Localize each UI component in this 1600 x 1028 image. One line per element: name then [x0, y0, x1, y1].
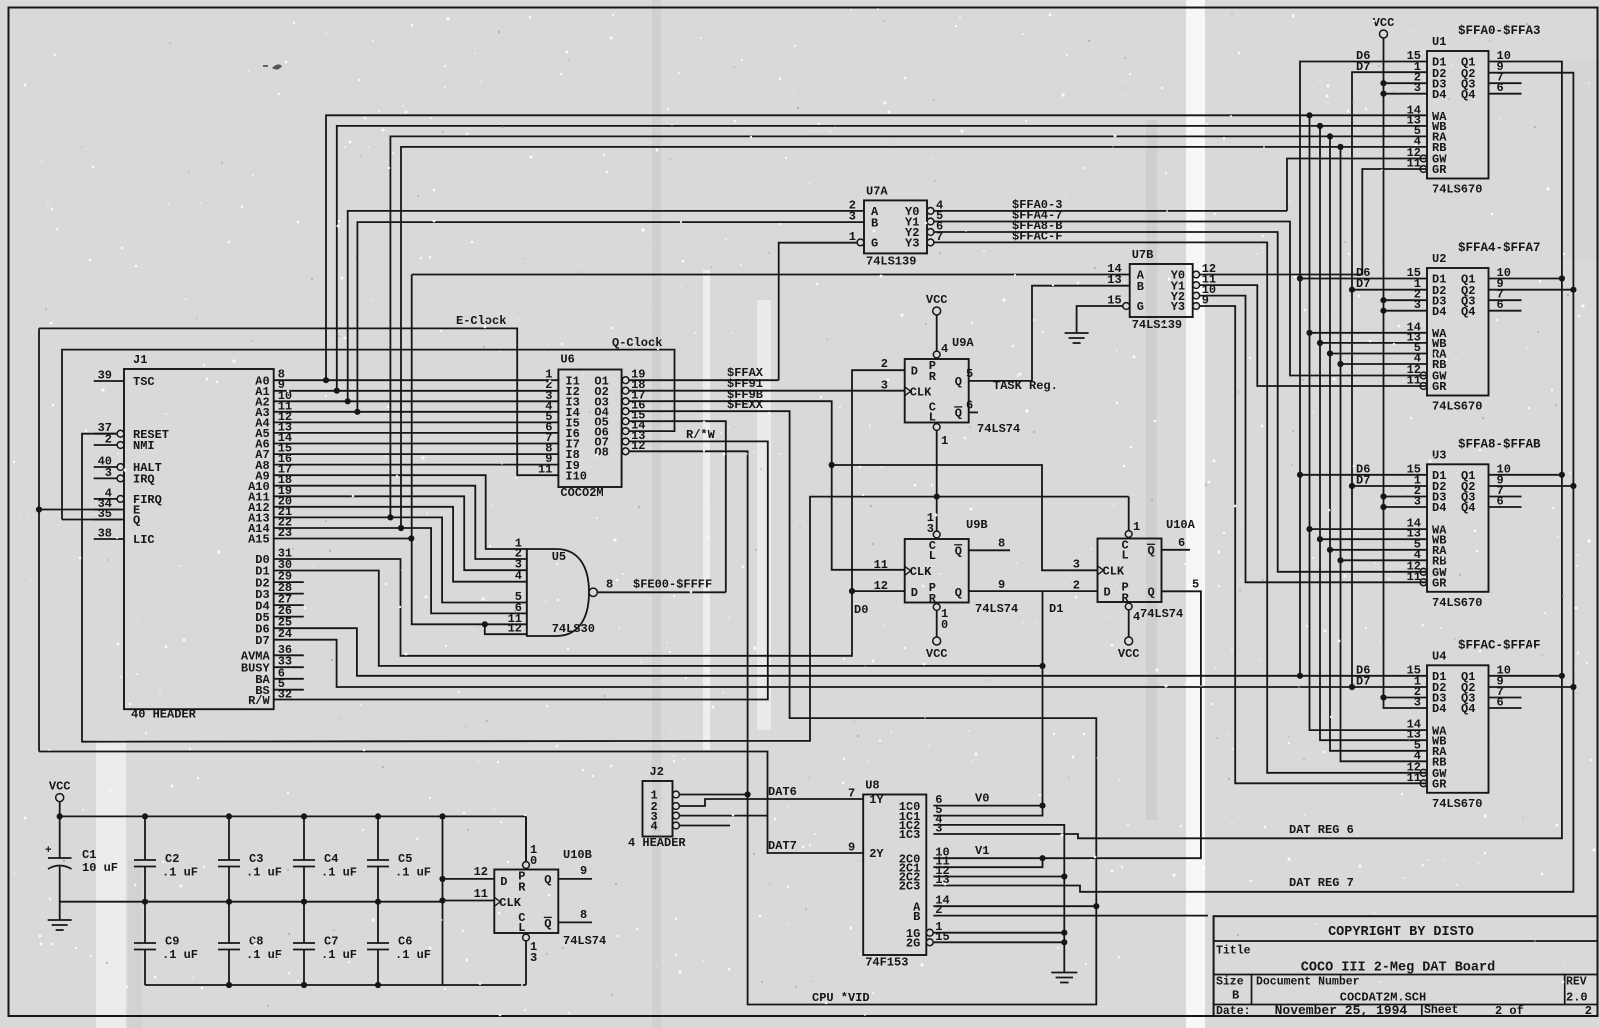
svg-text:D: D	[911, 586, 918, 600]
svg-text:U2: U2	[1432, 252, 1446, 266]
svg-text:3: 3	[1414, 696, 1421, 710]
svg-text:COPYRIGHT BY DISTO: COPYRIGHT BY DISTO	[1328, 925, 1474, 940]
svg-text:35: 35	[98, 507, 112, 521]
svg-text:$FE00-$FFFF: $FE00-$FFFF	[633, 578, 712, 592]
svg-text:DAT REG 6: DAT REG 6	[1289, 823, 1354, 837]
svg-text:.1 uF: .1 uF	[162, 866, 198, 880]
svg-text:L: L	[929, 549, 936, 563]
svg-text:11: 11	[874, 558, 888, 572]
svg-text:November 25, 1994: November 25, 1994	[1275, 1003, 1408, 1018]
svg-text:Q: Q	[955, 545, 962, 559]
svg-text:3: 3	[1414, 495, 1421, 509]
svg-text:U5: U5	[552, 550, 566, 564]
svg-text:COCO III 2-Meg DAT Board: COCO III 2-Meg DAT Board	[1301, 961, 1495, 976]
svg-text:D7: D7	[255, 634, 269, 648]
svg-text:6: 6	[1497, 298, 1504, 312]
svg-text:V1: V1	[975, 844, 989, 858]
svg-text:VCC: VCC	[926, 647, 948, 661]
svg-text:LIC: LIC	[133, 533, 155, 547]
svg-text:VCC: VCC	[1118, 647, 1140, 661]
svg-text:74LS74: 74LS74	[975, 602, 1018, 616]
svg-text:C8: C8	[249, 935, 263, 949]
svg-text:CLK: CLK	[910, 565, 932, 579]
svg-text:Q4: Q4	[1461, 501, 1475, 515]
svg-text:Document Number: Document Number	[1256, 976, 1360, 989]
svg-text:B: B	[1232, 989, 1239, 1003]
svg-text:6: 6	[1178, 536, 1185, 550]
svg-text:40 HEADER: 40 HEADER	[131, 708, 197, 722]
svg-text:GR: GR	[1432, 380, 1447, 394]
svg-text:D7: D7	[1356, 277, 1370, 291]
svg-text:2: 2	[105, 433, 112, 447]
svg-text:3: 3	[1073, 557, 1080, 571]
svg-text:DAT6: DAT6	[768, 785, 797, 799]
svg-text:U7A: U7A	[866, 184, 888, 198]
svg-text:.1 uF: .1 uF	[246, 948, 282, 962]
svg-text:U9B: U9B	[966, 518, 988, 532]
svg-text:74LS139: 74LS139	[866, 254, 916, 268]
svg-text:4: 4	[515, 569, 522, 583]
svg-text:74LS670: 74LS670	[1432, 400, 1482, 414]
svg-text:L: L	[518, 921, 525, 935]
svg-text:15: 15	[935, 930, 949, 944]
svg-text:Q: Q	[955, 586, 962, 600]
svg-text:CLK: CLK	[1103, 565, 1125, 579]
svg-text:I10: I10	[565, 469, 587, 483]
svg-text:L: L	[1122, 549, 1129, 563]
svg-text:74LS74: 74LS74	[977, 422, 1020, 436]
svg-text:39: 39	[98, 369, 112, 383]
svg-text:$FFA4-$FFA7: $FFA4-$FFA7	[1458, 241, 1541, 255]
svg-text:Q: Q	[1148, 586, 1155, 600]
svg-text:D0: D0	[854, 603, 868, 617]
svg-text:J2: J2	[650, 765, 664, 779]
svg-text:23: 23	[278, 526, 292, 540]
svg-text:32: 32	[278, 688, 292, 702]
svg-text:7: 7	[848, 787, 855, 801]
svg-text:3: 3	[927, 522, 934, 536]
svg-text:9: 9	[1202, 294, 1209, 308]
svg-text:Q: Q	[544, 873, 551, 887]
svg-text:6: 6	[1497, 696, 1504, 710]
svg-text:E-Clock: E-Clock	[456, 314, 506, 328]
svg-text:5: 5	[1192, 577, 1199, 591]
svg-text:Y3: Y3	[905, 237, 919, 251]
svg-text:C5: C5	[398, 852, 412, 866]
svg-text:U6: U6	[560, 353, 574, 367]
svg-text:Q: Q	[133, 514, 140, 528]
svg-text:1Y: 1Y	[869, 793, 884, 807]
svg-text:$FFA0-$FFA3: $FFA0-$FFA3	[1458, 24, 1541, 38]
svg-text:13: 13	[1107, 273, 1121, 287]
svg-text:U10B: U10B	[563, 848, 592, 862]
svg-text:D4: D4	[1432, 88, 1446, 102]
svg-text:B: B	[913, 910, 920, 924]
svg-text:3: 3	[105, 466, 112, 480]
svg-text:2: 2	[1585, 1004, 1592, 1018]
svg-text:6: 6	[1497, 495, 1504, 509]
svg-text:D4: D4	[1432, 305, 1446, 319]
svg-text:3: 3	[935, 822, 942, 836]
svg-text:74LS74: 74LS74	[563, 934, 606, 948]
svg-text:.1 uF: .1 uF	[162, 948, 198, 962]
svg-text:11: 11	[1407, 570, 1421, 584]
svg-text:D7: D7	[1356, 675, 1370, 689]
svg-text:Date:: Date:	[1216, 1005, 1251, 1018]
svg-text:10 uF: 10 uF	[82, 861, 118, 875]
svg-text:12: 12	[508, 622, 522, 636]
svg-text:Q: Q	[955, 407, 962, 421]
svg-text:9: 9	[998, 578, 1005, 592]
svg-text:D7: D7	[1356, 60, 1370, 74]
svg-text:13: 13	[935, 873, 949, 887]
svg-text:D1: D1	[1049, 602, 1063, 616]
svg-text:5: 5	[966, 367, 973, 381]
svg-text:74LS30: 74LS30	[552, 622, 595, 636]
svg-text:.1 uF: .1 uF	[321, 866, 357, 880]
svg-text:Sheet: Sheet	[1424, 1004, 1459, 1017]
svg-text:Y3: Y3	[1171, 300, 1185, 314]
svg-text:GR: GR	[1432, 577, 1447, 591]
svg-text:$FFAC-F: $FFAC-F	[1012, 229, 1062, 243]
svg-text:Q: Q	[1148, 544, 1155, 558]
svg-text:TASK Reg.: TASK Reg.	[993, 379, 1058, 393]
svg-text:GR: GR	[1432, 163, 1447, 177]
svg-text:R: R	[929, 370, 937, 384]
svg-text:0: 0	[530, 854, 537, 868]
svg-text:8: 8	[606, 578, 613, 592]
svg-text:R/*W: R/*W	[686, 428, 716, 442]
svg-text:Q: Q	[544, 917, 551, 931]
svg-text:U4: U4	[1432, 649, 1446, 663]
svg-text:74LS74: 74LS74	[1140, 607, 1183, 621]
svg-text:Q4: Q4	[1461, 88, 1475, 102]
svg-text:.1 uF: .1 uF	[395, 948, 431, 962]
svg-text:C1: C1	[82, 848, 96, 862]
svg-text:R: R	[518, 881, 526, 895]
svg-text:D4: D4	[1432, 702, 1446, 716]
svg-text:.1 uF: .1 uF	[321, 948, 357, 962]
svg-text:12: 12	[474, 865, 488, 879]
svg-text:C6: C6	[398, 935, 412, 949]
svg-text:Q-Clock: Q-Clock	[612, 336, 662, 350]
svg-text:4: 4	[941, 342, 948, 356]
svg-text:6: 6	[966, 398, 973, 412]
svg-text:B: B	[871, 216, 878, 230]
svg-text:VCC: VCC	[49, 780, 71, 794]
svg-text:C4: C4	[324, 852, 338, 866]
svg-text:2C3: 2C3	[899, 880, 921, 894]
svg-text:2 of: 2 of	[1495, 1004, 1524, 1018]
svg-text:2: 2	[881, 357, 888, 371]
svg-text:R/W: R/W	[248, 694, 270, 708]
svg-text:4: 4	[651, 820, 658, 834]
svg-text:2Y: 2Y	[869, 847, 884, 861]
svg-text:2G: 2G	[906, 937, 920, 951]
svg-text:8: 8	[998, 536, 1005, 550]
svg-text:Q4: Q4	[1461, 305, 1475, 319]
svg-text:D: D	[911, 364, 918, 378]
svg-text:1: 1	[1133, 520, 1140, 534]
svg-text:C3: C3	[249, 852, 263, 866]
svg-text:9: 9	[580, 864, 587, 878]
svg-text:1: 1	[941, 434, 948, 448]
svg-text:11: 11	[1407, 771, 1421, 785]
svg-text:+: +	[45, 845, 52, 857]
svg-text:D7: D7	[1356, 474, 1370, 488]
svg-text:12: 12	[874, 579, 888, 593]
svg-text:6: 6	[1497, 81, 1504, 95]
svg-text:V0: V0	[975, 792, 989, 806]
svg-text:U10A: U10A	[1166, 518, 1196, 532]
svg-text:1C3: 1C3	[899, 828, 921, 842]
svg-text:8: 8	[580, 908, 587, 922]
svg-text:TSC: TSC	[133, 375, 155, 389]
svg-text:VCC: VCC	[926, 293, 948, 307]
svg-text:4: 4	[1133, 610, 1140, 624]
svg-text:CLK: CLK	[910, 386, 932, 400]
svg-text:REV: REV	[1566, 976, 1587, 989]
svg-text:R: R	[1122, 591, 1130, 605]
svg-text:11: 11	[1407, 157, 1421, 171]
svg-text:2.0: 2.0	[1566, 991, 1588, 1005]
svg-text:3: 3	[1414, 81, 1421, 95]
svg-text:Size: Size	[1216, 976, 1244, 989]
svg-text:CPU *VID: CPU *VID	[812, 991, 870, 1005]
svg-text:74F153: 74F153	[865, 956, 908, 970]
svg-text:.1 uF: .1 uF	[395, 866, 431, 880]
svg-text:11: 11	[538, 463, 552, 477]
svg-text:DAT REG 7: DAT REG 7	[1289, 876, 1354, 890]
svg-text:7: 7	[936, 230, 943, 244]
svg-text:9: 9	[848, 841, 855, 855]
svg-text:2: 2	[1073, 578, 1080, 592]
svg-text:38: 38	[98, 527, 112, 541]
svg-text:GR: GR	[1432, 778, 1447, 792]
svg-text:74LS139: 74LS139	[1132, 318, 1182, 332]
svg-text:D4: D4	[1432, 501, 1446, 515]
svg-text:24: 24	[278, 627, 292, 641]
svg-text:15: 15	[1107, 294, 1121, 308]
svg-text:$FFA8-$FFAB: $FFA8-$FFAB	[1458, 437, 1541, 451]
svg-text:J1: J1	[133, 353, 147, 367]
svg-text:COCO2M: COCO2M	[560, 486, 603, 500]
svg-text:G: G	[871, 237, 878, 251]
svg-text:C2: C2	[165, 852, 179, 866]
svg-text:1: 1	[849, 230, 856, 244]
svg-text:3: 3	[530, 951, 537, 965]
svg-text:U1: U1	[1432, 35, 1446, 49]
svg-text:D: D	[500, 875, 507, 889]
svg-text:74LS670: 74LS670	[1432, 596, 1482, 610]
svg-text:U7B: U7B	[1132, 248, 1154, 262]
svg-text:11: 11	[474, 887, 488, 901]
svg-text:O8: O8	[594, 446, 608, 460]
svg-text:A15: A15	[248, 533, 270, 547]
svg-text:12: 12	[631, 439, 645, 453]
svg-text:C9: C9	[165, 935, 179, 949]
svg-text:IRQ: IRQ	[133, 473, 155, 487]
svg-text:G: G	[1137, 300, 1144, 314]
svg-text:U8: U8	[865, 779, 879, 793]
svg-text:L: L	[929, 411, 936, 425]
svg-text:Q: Q	[955, 375, 962, 389]
svg-text:3: 3	[1414, 298, 1421, 312]
svg-text:NMI: NMI	[133, 439, 155, 453]
svg-text:D: D	[1104, 586, 1111, 600]
svg-text:Title: Title	[1216, 945, 1251, 958]
svg-text:DAT7: DAT7	[768, 839, 797, 853]
svg-text:$FEXX: $FEXX	[727, 398, 764, 412]
svg-text:3: 3	[849, 210, 856, 224]
svg-text:CLK: CLK	[499, 896, 521, 910]
svg-text:2: 2	[935, 903, 942, 917]
svg-text:B: B	[1137, 280, 1144, 294]
svg-text:U3: U3	[1432, 448, 1446, 462]
svg-text:C7: C7	[324, 935, 338, 949]
svg-text:R: R	[929, 592, 937, 606]
svg-text:Q4: Q4	[1461, 702, 1475, 716]
svg-text:74LS670: 74LS670	[1432, 797, 1482, 811]
svg-text:.1 uF: .1 uF	[246, 866, 282, 880]
svg-text:$FFAC-$FFAF: $FFAC-$FFAF	[1458, 638, 1541, 652]
svg-text:VCC: VCC	[1373, 16, 1395, 30]
svg-text:0: 0	[941, 618, 948, 632]
svg-text:U9A: U9A	[952, 336, 974, 350]
svg-text:11: 11	[1407, 374, 1421, 388]
svg-text:4 HEADER: 4 HEADER	[628, 836, 686, 850]
